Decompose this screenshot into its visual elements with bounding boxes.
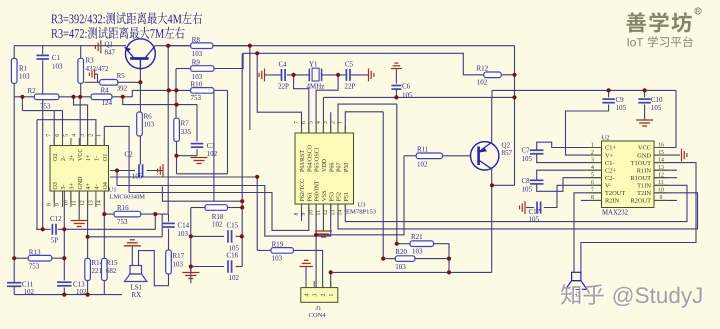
svg-text:102: 102 bbox=[477, 79, 488, 87]
capacitor C6 bbox=[391, 86, 401, 90]
svg-text:C16: C16 bbox=[227, 252, 239, 260]
wire C8 to pin4 bbox=[537, 170, 602, 180]
svg-text:3: 3 bbox=[80, 134, 86, 137]
wire C12 row right bbox=[58, 228, 156, 230]
resistor R18 bbox=[205, 205, 228, 211]
ground crystal right bbox=[369, 68, 374, 81]
wire row90 bbox=[492, 89, 676, 91]
wire row120 to pin2 bbox=[37, 120, 96, 146]
svg-text:103: 103 bbox=[52, 63, 63, 71]
op-amp U1 pin stubs bbox=[54, 138, 104, 207]
junction bbox=[189, 234, 193, 238]
svg-text:6: 6 bbox=[55, 134, 61, 137]
svg-text:R4: R4 bbox=[101, 86, 110, 94]
capacitor C13 bbox=[57, 282, 72, 286]
svg-text:2: 2 bbox=[591, 150, 594, 156]
wire row236 to R16 area bbox=[88, 236, 163, 238]
wire J1 gnd stem bbox=[305, 267, 307, 288]
ground C3 bbox=[191, 158, 208, 164]
transistor Q1 bbox=[124, 39, 155, 69]
resistor R1 bbox=[11, 58, 17, 83]
wire C1 bottom column bbox=[42, 60, 44, 229]
wire pin8 stub bbox=[581, 199, 602, 201]
wire C3 bottom bbox=[196, 149, 198, 156]
resistor R7 bbox=[174, 118, 180, 141]
wire bbox=[21, 97, 23, 111]
wire VDD stub bbox=[322, 97, 324, 133]
wire R3 bottom bbox=[80, 83, 82, 97]
resistor R8 bbox=[191, 43, 213, 49]
wire row173 bbox=[177, 173, 228, 175]
svg-text:V-: V- bbox=[605, 183, 611, 190]
wire C2 right to gnd bbox=[147, 170, 163, 172]
wire LS1 gnd stem bbox=[131, 246, 133, 266]
svg-text:T1OUT: T1OUT bbox=[631, 160, 651, 167]
svg-text:P50: P50 bbox=[344, 163, 350, 172]
wire R11 left bbox=[404, 155, 416, 157]
junction bbox=[240, 199, 244, 203]
svg-text:C2: C2 bbox=[125, 151, 134, 159]
svg-text:10: 10 bbox=[309, 210, 315, 216]
resistor R17 bbox=[166, 250, 172, 274]
svg-text:VCC: VCC bbox=[638, 145, 651, 152]
junction bbox=[336, 73, 340, 77]
svg-text:6: 6 bbox=[591, 180, 594, 186]
svg-text:13: 13 bbox=[658, 165, 664, 171]
wire col63 down bbox=[63, 191, 65, 281]
svg-text:R1OUT: R1OUT bbox=[630, 175, 651, 182]
svg-text:VDD: VDD bbox=[322, 158, 328, 172]
resistor R5 bbox=[100, 80, 118, 86]
wire R20 left bbox=[383, 258, 395, 260]
svg-text:102: 102 bbox=[229, 274, 240, 282]
wire P53 loop bbox=[117, 186, 331, 237]
ground MAX232 pin15 bbox=[682, 149, 687, 162]
capacitor C9 bbox=[602, 99, 615, 103]
wire col383 bbox=[382, 112, 384, 259]
wire col514 bbox=[514, 46, 516, 186]
junction bbox=[381, 257, 385, 261]
junction bbox=[240, 205, 244, 209]
logo subtitle bbox=[628, 36, 693, 47]
svg-text:V+: V+ bbox=[605, 152, 614, 159]
wire C8 to pin5 bbox=[537, 178, 602, 192]
wire R19 left bbox=[257, 249, 271, 251]
svg-text:102: 102 bbox=[417, 160, 428, 168]
resistor R12 bbox=[484, 72, 501, 78]
svg-text:U1: U1 bbox=[109, 187, 117, 194]
capacitor C16 bbox=[228, 260, 232, 273]
wire C9 to pin2 bbox=[566, 105, 609, 156]
wire pin14 T1OUT to LS2 bbox=[581, 163, 696, 273]
wire C15 right bbox=[236, 235, 243, 237]
svg-text:12: 12 bbox=[323, 210, 329, 216]
wire R7 bottom bbox=[176, 141, 178, 173]
wire rail bottom bbox=[13, 287, 15, 295]
junction bbox=[329, 270, 333, 274]
svg-text:P63/RST: P63/RST bbox=[300, 150, 306, 172]
junction bbox=[607, 88, 611, 92]
svg-text:R1: R1 bbox=[19, 65, 28, 73]
wire R12 right bbox=[501, 74, 514, 76]
svg-text:102: 102 bbox=[24, 288, 35, 296]
wire P62 stub bbox=[301, 204, 303, 221]
wire R16 right bbox=[141, 213, 169, 215]
svg-text:105: 105 bbox=[616, 104, 627, 112]
wire LS1 to R17 bbox=[139, 251, 169, 286]
svg-text:102: 102 bbox=[212, 221, 223, 229]
svg-text:R20: R20 bbox=[395, 248, 407, 256]
wire rail left bbox=[13, 46, 15, 282]
svg-text:R21: R21 bbox=[411, 233, 423, 241]
wire Q2 collector down bbox=[491, 169, 493, 273]
junction bbox=[138, 80, 142, 84]
svg-text:R15: R15 bbox=[106, 259, 118, 267]
junction bbox=[255, 51, 259, 55]
resistor R21 bbox=[410, 241, 434, 247]
wire C9 top bbox=[608, 90, 610, 97]
svg-text:3-: 3- bbox=[61, 185, 67, 190]
wire pin6 up bbox=[62, 111, 64, 146]
junction bbox=[20, 95, 24, 99]
wire pin10 stub bbox=[70, 191, 72, 202]
svg-text:15: 15 bbox=[658, 150, 664, 156]
wire C10 to gnd bbox=[644, 105, 646, 120]
svg-text:2: 2 bbox=[330, 121, 336, 124]
svg-text:T1IN: T1IN bbox=[637, 183, 651, 190]
wire pin11 gnd stem bbox=[78, 191, 80, 220]
svg-text:R13: R13 bbox=[29, 249, 41, 257]
svg-text:103: 103 bbox=[19, 73, 30, 81]
resistor R11 bbox=[416, 153, 442, 159]
wire R16 left bbox=[104, 213, 114, 215]
resistor R9 bbox=[191, 66, 214, 72]
ground U1 GND pin bbox=[71, 221, 88, 227]
svg-text:3: 3 bbox=[591, 157, 594, 163]
junction bbox=[395, 242, 399, 246]
svg-text:U2: U2 bbox=[602, 135, 610, 142]
wire C1 top bbox=[42, 46, 44, 55]
junction bbox=[189, 264, 193, 268]
power ground J1 bbox=[300, 260, 313, 266]
svg-text:682: 682 bbox=[106, 267, 117, 275]
wire bottom row bbox=[14, 294, 122, 296]
svg-text:P53: P53 bbox=[329, 192, 335, 201]
wire R2-R4 bbox=[59, 96, 91, 98]
svg-text:103: 103 bbox=[412, 248, 423, 256]
svg-text:753: 753 bbox=[29, 263, 40, 271]
wire C17 to pin6 bbox=[544, 185, 602, 207]
wire R18 left bbox=[191, 207, 205, 209]
wire pin16 VCC bbox=[654, 90, 676, 147]
wire jog to pin3 bbox=[74, 97, 88, 146]
capacitor C10 bbox=[638, 99, 651, 103]
svg-text:4: 4 bbox=[72, 134, 78, 137]
svg-text:5P: 5P bbox=[51, 237, 59, 245]
svg-text:4MHz: 4MHz bbox=[307, 83, 325, 91]
svg-text:11: 11 bbox=[72, 200, 78, 206]
svg-text:13: 13 bbox=[330, 210, 336, 216]
svg-text:2: 2 bbox=[321, 294, 327, 297]
wire col104 pin14 bbox=[103, 191, 105, 258]
svg-text:P67: P67 bbox=[337, 163, 343, 172]
svg-text:CON4: CON4 bbox=[309, 312, 327, 319]
wire vdd bus97 bbox=[323, 96, 514, 98]
wire R8 left bbox=[168, 45, 190, 47]
wire pin15 gnd bbox=[654, 154, 680, 156]
wire C14 top bbox=[168, 214, 170, 222]
svg-text:R3: R3 bbox=[86, 57, 95, 65]
svg-text:R7: R7 bbox=[181, 120, 190, 128]
junction bbox=[240, 234, 244, 238]
ground C16 bbox=[182, 273, 199, 279]
svg-text:103: 103 bbox=[144, 121, 155, 129]
svg-text:105: 105 bbox=[529, 216, 540, 224]
wire col213 R10 down bbox=[213, 90, 215, 201]
crystal Y1 bbox=[309, 68, 321, 81]
wire col250 from R8 bbox=[249, 46, 251, 130]
svg-text:14: 14 bbox=[338, 210, 344, 216]
svg-text:P60/INT: P60/INT bbox=[315, 180, 321, 201]
svg-text:2: 2 bbox=[88, 134, 94, 137]
capacitor C5 bbox=[346, 69, 350, 81]
svg-text:9: 9 bbox=[660, 195, 663, 201]
wire to C3 gnd bbox=[177, 155, 198, 157]
ic U2 body bbox=[602, 141, 655, 208]
junction bbox=[248, 44, 252, 48]
svg-text:C15: C15 bbox=[227, 222, 239, 230]
watermark zhihu bbox=[561, 284, 703, 309]
svg-text:O1: O1 bbox=[103, 154, 109, 161]
wire C4 to P64 bbox=[294, 75, 309, 133]
junction bbox=[71, 95, 75, 99]
wire left col to C12 row bbox=[36, 120, 38, 230]
wire C16 right bbox=[236, 266, 243, 268]
wire VSS gnd stem bbox=[322, 204, 324, 231]
svg-text:335: 335 bbox=[181, 128, 192, 136]
transistor Q2 bbox=[471, 142, 499, 170]
capacitor C2 bbox=[139, 164, 143, 177]
ground C17 bbox=[520, 201, 525, 214]
wire bbox=[491, 90, 493, 97]
svg-text:RX: RX bbox=[132, 291, 142, 299]
resistor R10 bbox=[191, 88, 214, 94]
resistor R19 bbox=[271, 248, 293, 254]
svg-text:1-: 1- bbox=[95, 156, 101, 161]
svg-text:C1-: C1- bbox=[605, 160, 615, 167]
svg-text:1: 1 bbox=[329, 294, 335, 297]
svg-text:R9: R9 bbox=[192, 59, 201, 67]
ground R3 tap bbox=[89, 69, 94, 79]
svg-text:753: 753 bbox=[191, 94, 202, 102]
svg-text:P51: P51 bbox=[344, 192, 350, 201]
svg-text:LMC6034IM: LMC6034IM bbox=[110, 194, 146, 201]
wire pin1 O1 column bbox=[104, 126, 129, 192]
svg-text:16: 16 bbox=[658, 142, 664, 148]
svg-text:R2IN: R2IN bbox=[605, 198, 620, 205]
wire R11 right to Q2 bbox=[442, 155, 471, 157]
junction bbox=[62, 293, 66, 297]
svg-text:P62/TCC: P62/TCC bbox=[300, 179, 306, 202]
svg-text:C12: C12 bbox=[50, 215, 62, 223]
wire C7 to pin3 bbox=[537, 154, 602, 163]
wire pin11 T1IN to P51 bbox=[345, 185, 687, 221]
wire R10 right bbox=[214, 89, 228, 91]
wire R14 bottom bbox=[87, 281, 89, 295]
wire R9 left bbox=[176, 68, 191, 70]
wire P50 top bbox=[345, 112, 383, 133]
svg-text:12: 12 bbox=[658, 173, 664, 179]
capacitor C3 bbox=[191, 144, 204, 148]
svg-text:5: 5 bbox=[591, 173, 594, 179]
mcu U3 pin stubs bbox=[302, 126, 346, 212]
resistor R16 bbox=[114, 211, 141, 217]
wire R13 right bbox=[52, 257, 65, 259]
svg-text:VCC: VCC bbox=[78, 149, 84, 161]
svg-text:105: 105 bbox=[402, 92, 413, 100]
svg-text:C14: C14 bbox=[178, 222, 190, 230]
capacitor C17 bbox=[537, 202, 541, 214]
junction bbox=[512, 73, 516, 77]
svg-text:C2+: C2+ bbox=[605, 167, 616, 174]
wire row177 to R19 bbox=[110, 176, 257, 178]
junction bbox=[86, 235, 90, 239]
wire C3 top bbox=[196, 105, 198, 142]
junction bbox=[643, 88, 647, 92]
wire gnd stem bbox=[190, 267, 192, 272]
svg-text:6: 6 bbox=[301, 121, 307, 124]
wire col155 bbox=[154, 214, 156, 229]
junction bbox=[314, 233, 318, 237]
svg-text:C4: C4 bbox=[279, 61, 288, 69]
wire P61 loop bbox=[129, 193, 309, 231]
wire col190 bbox=[190, 208, 192, 284]
svg-text:105: 105 bbox=[132, 173, 143, 181]
svg-text:C7: C7 bbox=[522, 147, 531, 155]
junction bbox=[447, 270, 451, 274]
junction bbox=[512, 95, 516, 99]
connector J1 pin labels bbox=[304, 294, 335, 297]
wire pin10 T2IN to P52 bbox=[338, 193, 698, 229]
wire R5 left bbox=[85, 81, 100, 83]
svg-text:O3: O3 bbox=[53, 182, 59, 189]
svg-text:103: 103 bbox=[192, 50, 203, 58]
wire R5 right bbox=[118, 81, 141, 83]
svg-text:10: 10 bbox=[658, 188, 664, 194]
svg-text:C8: C8 bbox=[522, 177, 531, 185]
junction bbox=[174, 103, 178, 107]
svg-text:VSS: VSS bbox=[322, 190, 328, 201]
svg-text:3: 3 bbox=[323, 121, 329, 124]
wire R9 to R12 bbox=[214, 53, 484, 75]
svg-text:7: 7 bbox=[294, 121, 300, 124]
wire pin9 stub bbox=[654, 199, 677, 201]
wire C5 to P65 bbox=[316, 75, 338, 133]
svg-text:103: 103 bbox=[395, 263, 406, 271]
svg-text:1+: 1+ bbox=[86, 154, 92, 161]
junction bbox=[41, 227, 45, 231]
svg-text:105: 105 bbox=[651, 104, 662, 112]
wire R13 left bbox=[14, 257, 28, 259]
resistor R2 bbox=[34, 94, 59, 100]
svg-text:4: 4 bbox=[591, 165, 594, 171]
wire P67 top bbox=[338, 104, 397, 133]
wire R6 bottom bbox=[139, 136, 141, 165]
wire C5 to gnd bbox=[350, 74, 369, 76]
power ground LS1 bbox=[124, 240, 141, 246]
wire pin7 to LS2 bbox=[574, 193, 602, 272]
speaker LS2 TX bbox=[566, 272, 587, 289]
svg-text:C2-: C2- bbox=[605, 175, 615, 182]
wire R3 top bbox=[80, 46, 82, 59]
wire pin12 stub bbox=[654, 177, 677, 179]
svg-text:R: R bbox=[696, 8, 701, 15]
svg-text:4+: 4+ bbox=[86, 183, 92, 190]
svg-text:4-: 4- bbox=[95, 185, 101, 190]
svg-text:P64/OSCO: P64/OSCO bbox=[307, 144, 313, 172]
capacitor C7 bbox=[530, 150, 544, 154]
svg-text:R10: R10 bbox=[191, 81, 203, 89]
junction bbox=[115, 168, 119, 172]
svg-text:R1IN: R1IN bbox=[637, 167, 652, 174]
svg-text:11: 11 bbox=[316, 210, 322, 216]
junction bbox=[86, 293, 90, 297]
svg-text:R2OUT: R2OUT bbox=[630, 198, 651, 205]
wire row110 bbox=[22, 110, 62, 112]
resistor R6 bbox=[137, 112, 143, 136]
svg-text:14: 14 bbox=[658, 157, 664, 163]
wire C4 to Y1 bbox=[287, 74, 309, 76]
junction bbox=[490, 183, 494, 187]
svg-text:C3: C3 bbox=[207, 142, 216, 150]
wire R10 left bbox=[132, 90, 190, 96]
ground Q1 emitter bbox=[95, 40, 100, 53]
wire row104 bbox=[123, 97, 197, 105]
wire col242 long bbox=[241, 53, 243, 266]
wire col88 pin12 to R14 bbox=[87, 191, 89, 258]
wire gnd to C17 bbox=[526, 207, 534, 209]
wire Q1 collector bbox=[139, 67, 141, 112]
wire P66 stub up bbox=[330, 112, 332, 133]
wire C6 bottom bbox=[395, 89, 397, 97]
svg-text:R12: R12 bbox=[477, 65, 489, 73]
resistor R15 bbox=[102, 258, 108, 280]
wire Q2 emitter up bbox=[491, 97, 493, 142]
svg-text:5: 5 bbox=[63, 134, 69, 137]
svg-text:Y1: Y1 bbox=[309, 61, 318, 69]
wire col162 up bbox=[161, 214, 163, 237]
ground crystal left bbox=[259, 68, 264, 81]
svg-text:J1: J1 bbox=[316, 305, 322, 312]
svg-text:10: 10 bbox=[63, 200, 69, 206]
svg-text:1: 1 bbox=[591, 142, 594, 148]
svg-text:8: 8 bbox=[294, 213, 300, 216]
svg-text:102: 102 bbox=[76, 288, 87, 296]
wire R3 to pin4 VCC bbox=[79, 97, 81, 146]
svg-text:7: 7 bbox=[591, 188, 594, 194]
svg-text:Q1: Q1 bbox=[105, 41, 114, 49]
svg-text:C6: C6 bbox=[402, 83, 411, 91]
junction bbox=[153, 212, 157, 216]
wire pin8 stub bbox=[53, 191, 55, 202]
title line1 bbox=[51, 12, 202, 24]
junction bbox=[121, 95, 125, 99]
svg-text:432/472: 432/472 bbox=[86, 65, 109, 73]
junction bbox=[255, 175, 259, 179]
wire R8 right bbox=[213, 45, 250, 47]
svg-text:124: 124 bbox=[102, 99, 113, 107]
ic U2 pin labels bbox=[591, 142, 664, 204]
